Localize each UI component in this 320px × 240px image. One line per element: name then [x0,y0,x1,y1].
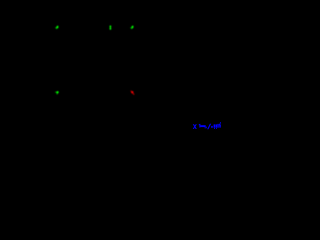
word Amp [199,124,200,128]
node E: red indicator (bottom-right) [131,91,134,94]
letter X [193,124,197,129]
node C: green check indicator (top-right) [131,26,134,29]
node D: green check indicator (bottom-left) [56,91,59,94]
glyph 3 [216,124,218,127]
node B: green vertical bar indicator (top-middle) [110,26,112,30]
slash [207,124,211,130]
node A: green check indicator (top-left) [56,26,59,29]
glyph 4 [217,124,218,128]
tick [220,122,221,123]
label: blue caption "X Amp / DIV" bottom-right [193,122,221,129]
glyph V [219,124,221,128]
glyph 2 [214,124,216,127]
word DIV: glyph 1 [211,126,213,128]
